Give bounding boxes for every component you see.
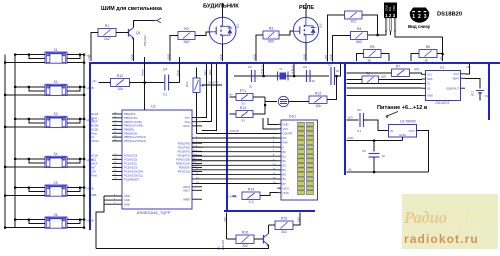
wire crystal to R12 [289, 101, 309, 103]
wire S4 pin3 to bus1 [5, 166, 45, 168]
svg-text:PD6(ICP): PD6(ICP) [179, 166, 190, 170]
junction S5 bus2 [14, 187, 16, 189]
junction S4 bus2 [14, 158, 16, 160]
wire S1 pin5 jumper [67, 55, 80, 59]
svg-text:PD7(OC2): PD7(OC2) [178, 170, 190, 174]
section border: RTC/power divider vertical [344, 62, 346, 175]
svg-text:КОТ: КОТ [446, 206, 499, 233]
svg-text:R8: R8 [366, 72, 371, 76]
svg-text:ШИМ для светильника: ШИМ для светильника [101, 6, 163, 12]
svg-text:X1: X1 [91, 135, 95, 139]
junction contrast node [264, 104, 266, 106]
wire PT1 left [230, 96, 237, 98]
svg-text:Вид снизу: Вид снизу [408, 24, 431, 29]
wire hour net up [202, 64, 207, 118]
svg-text:VCC: VCC [453, 72, 459, 76]
switch S6 [45, 213, 67, 228]
junction S1 right lower [83, 62, 85, 64]
wire S4 pin2 jumper [29, 159, 45, 163]
MCU left pins PB group [112, 112, 146, 143]
wire bundle MCU to LCD [192, 137, 278, 185]
svg-text:2k2: 2k2 [281, 230, 287, 234]
junction S1 jumper right [79, 54, 81, 56]
section border: left vertical bus line [89, 62, 91, 230]
svg-text:R13: R13 [240, 106, 247, 110]
junction XTAL1 [263, 75, 265, 77]
wire S5 pin4 right [67, 187, 84, 189]
wire MCU GND down [96, 196, 104, 249]
svg-text:Q1: Q1 [236, 24, 240, 28]
wire LCD pin2 VCC [263, 118, 278, 129]
svg-text:R4: R4 [357, 27, 362, 31]
svg-text:B7: B7 [283, 182, 287, 186]
svg-text:PC6(RESET): PC6(RESET) [124, 178, 140, 182]
svg-text:PB5(MOSI): PB5(MOSI) [124, 131, 137, 135]
svg-text:CONTR: CONTR [208, 81, 218, 85]
svg-text:BT1: BT1 [471, 90, 475, 96]
svg-text:0,1: 0,1 [163, 93, 168, 97]
wire S3 pin4 right [67, 118, 84, 120]
junction R9/R4/DQ [377, 34, 379, 36]
svg-text:470: 470 [381, 75, 387, 79]
svg-text:SQW/OUT: SQW/OUT [446, 86, 459, 90]
net labels at MCU left [91, 112, 99, 197]
svg-text:PB5(OCTA): PB5(OCTA) [124, 116, 138, 120]
MOSFET Q2 (relay) [293, 17, 322, 42]
wire XTAL1 stub [263, 64, 265, 77]
wire Q2 source down [305, 43, 307, 61]
wire R6 left down [411, 54, 419, 62]
resistor R16 [236, 231, 254, 249]
svg-text:Rese: Rese [91, 116, 98, 120]
svg-text:R1: R1 [105, 24, 110, 28]
wire C9 up [373, 141, 375, 152]
wire U3 OUT down [417, 131, 429, 173]
resistor R4 [351, 27, 368, 44]
svg-text:PC4(A2C4/SDA): PC4(A2C4/SDA) [124, 170, 143, 174]
svg-text:PB6(TAL1/TOSC1): PB6(TAL1/TOSC1) [124, 135, 146, 139]
svg-text:DQ: DQ [388, 7, 392, 11]
resistor R12 [309, 92, 327, 109]
potentiometer RV1 (contrast) [185, 78, 204, 93]
wire X2 left [347, 87, 422, 89]
switch S5 [45, 181, 67, 196]
junction S5 right lower [83, 195, 85, 197]
wire C4 right [169, 82, 180, 84]
svg-text:C3: C3 [303, 65, 307, 69]
junction R6/VDD [442, 53, 444, 55]
svg-text:PB7(TAL2/TOSC2): PB7(TAL2/TOSC2) [124, 139, 146, 143]
wire C9 down [373, 157, 375, 172]
section border: right edge vertical [488, 62, 490, 120]
svg-text:S3: S3 [54, 112, 58, 116]
svg-text:R3: R3 [269, 27, 274, 31]
junction S5 right upper [83, 187, 85, 189]
junction C9 top [373, 140, 375, 142]
wire reset vertical to MCU [144, 57, 146, 110]
junction S4 right upper [83, 158, 85, 160]
svg-text:CATOD: CATOD [228, 195, 237, 199]
resistor R3 [263, 27, 279, 44]
wire DS18B20 GND leg [368, 31, 387, 35]
wire S1 pin2 jumper [29, 55, 45, 59]
wire Q2 drain up [305, 3, 307, 17]
svg-text:РТ1: РТ1 [240, 89, 246, 93]
svg-text:2: 2 [418, 14, 421, 20]
svg-text:U2: U2 [151, 105, 156, 109]
svg-text:U3 78M05: U3 78M05 [400, 120, 416, 124]
svg-text:R7: R7 [396, 65, 401, 69]
junction C9 bottom [373, 171, 375, 173]
transistor Q4 (PN2222) [129, 28, 141, 40]
wire R7 to SQL [410, 73, 422, 75]
svg-text:AREF: AREF [183, 197, 190, 201]
svg-text:+БП: +БП [324, 55, 328, 60]
wire S1 pin4 right [67, 54, 84, 56]
switch S2 [45, 80, 67, 95]
wire R1 left to +5v [91, 33, 98, 62]
wire R2 to Q1 gate [195, 32, 211, 36]
svg-text:GND: GND [399, 133, 407, 137]
wire R15 right up [293, 213, 300, 226]
wire R13 right up [253, 97, 265, 114]
wire AVCC net up [202, 64, 217, 131]
capacitor C1 [328, 63, 340, 86]
wire S1 pin6 right [67, 62, 84, 64]
svg-text:DS1: DS1 [289, 115, 296, 119]
section border: middle vertical divider [226, 62, 228, 212]
svg-text:C4: C4 [163, 68, 167, 72]
wire node to crystal circle [265, 101, 277, 103]
svg-text:3V: 3V [485, 94, 488, 98]
svg-text:2k2: 2k2 [104, 37, 110, 41]
junction S2 jumper left [28, 86, 30, 88]
wire C1 right up [335, 64, 341, 77]
resistor R2 [178, 27, 195, 44]
svg-text:GND: GND [176, 70, 180, 76]
svg-text:GND: GND [130, 54, 134, 60]
svg-text:B0: B0 [283, 150, 287, 154]
svg-text:R16: R16 [242, 231, 249, 235]
wire R3 to Q2 gate [279, 31, 294, 35]
wire R2 left down [170, 36, 178, 62]
svg-text:Q5: Q5 [217, 246, 221, 250]
wire S1 pin1 to bus2 [15, 54, 45, 56]
MCU GND pins [104, 194, 130, 206]
wire collector to R15 [269, 224, 276, 226]
resistor R10 [111, 74, 130, 91]
svg-text:Prost: Prost [91, 174, 97, 178]
wire S2 pin3 to bus1 [5, 94, 45, 96]
svg-text:GND: GND [219, 54, 223, 60]
junction S3 right upper [83, 118, 85, 120]
svg-text:X2: X2 [427, 86, 431, 90]
wire R1 to Q4 base [116, 32, 129, 34]
svg-text:560: 560 [268, 40, 274, 44]
wire R10 left [99, 82, 111, 84]
wire S2 pin4 right [67, 86, 84, 88]
svg-text:560: 560 [184, 40, 190, 44]
svg-text:B5: B5 [283, 173, 287, 177]
wire R12 right up [327, 76, 337, 100]
wire C4 to GND stub [179, 57, 181, 83]
capacitor C4 [163, 68, 169, 97]
wire RV1 top [196, 68, 198, 79]
svg-text:RS: RS [283, 136, 287, 140]
svg-text:PC5(A2C5/SCL): PC5(A2C5/SCL) [124, 174, 143, 178]
wire S4 pin5 jumper [67, 159, 80, 163]
svg-text:R10: R10 [117, 74, 124, 78]
svg-text:Timo: Timo [184, 120, 190, 124]
RTC U1 DS1307 box [426, 71, 461, 101]
wire S5 pin1 to bus2 [15, 187, 45, 189]
svg-text:HC6B: HC6B [87, 219, 94, 223]
svg-text:Y1: Y1 [279, 67, 283, 71]
svg-text:20: 20 [336, 69, 340, 73]
svg-text:GND: GND [384, 5, 388, 11]
svg-text:R12: R12 [315, 92, 322, 96]
junction S1 bus1 [4, 62, 6, 64]
wire left bus 2 [14, 55, 16, 228]
svg-text:Q4: Q4 [136, 31, 140, 35]
svg-text:GND: GND [427, 94, 433, 98]
svg-text:PB0(XP0): PB0(XP0) [124, 112, 136, 116]
junction S2 jumper right [79, 86, 81, 88]
svg-text:GND: GND [252, 54, 256, 60]
svg-text:2k2: 2k2 [242, 244, 248, 248]
svg-text:GND: GND [124, 202, 130, 206]
wire S5 pin3 to bus1 [5, 195, 45, 197]
svg-text:B1: B1 [283, 154, 287, 158]
svg-text:R15: R15 [281, 217, 288, 221]
wire S5 pin2 jumper [29, 188, 45, 192]
svg-text:20: 20 [312, 79, 316, 83]
wire Q1 source down [222, 44, 224, 61]
junction R12/C1 [336, 75, 338, 77]
wire S6 pin4 right [67, 219, 84, 221]
svg-text:470: 470 [414, 68, 420, 72]
wire S6 pin3 to bus1 [5, 227, 45, 229]
wire S1 pin3 to bus1 [5, 62, 45, 64]
svg-text:X3: X3 [241, 102, 245, 106]
capacitor C2 [248, 65, 255, 89]
svg-text:R5: R5 [370, 45, 375, 49]
svg-text:HC5B: HC5B [87, 187, 94, 191]
junction S2 right lower [83, 94, 85, 96]
junction XTAL2 [293, 75, 295, 77]
svg-text:Prost: Prost [91, 131, 97, 135]
svg-text:PD1(TXD): PD1(TXD) [178, 145, 190, 149]
svg-text:Reset: Reset [141, 69, 145, 76]
wire S3 pin6 right [67, 126, 84, 128]
wire to R16 [227, 238, 237, 240]
svg-text:SCL: SCL [427, 72, 433, 76]
svg-text:DS18B20: DS18B20 [437, 12, 462, 18]
svg-text:БУДИЛЬНИК: БУДИЛЬНИК [203, 4, 239, 10]
svg-text:NC/A: NC/A [283, 186, 290, 190]
svg-text:10k: 10k [315, 104, 321, 108]
svg-text:1: 1 [412, 14, 415, 20]
LCD connector DS1 box [281, 120, 318, 200]
svg-text:GND: GND [124, 198, 130, 202]
wire Q5 emitter to GND row [96, 245, 269, 249]
wire battery down [479, 93, 481, 101]
svg-text:BhT: BhT [91, 165, 96, 169]
wire S6 pin6 right [67, 227, 84, 229]
svg-text:HC1B: HC1B [91, 153, 98, 157]
svg-text:CONTR: CONTR [283, 132, 293, 136]
svg-text:RV1: RV1 [185, 81, 189, 87]
junction S4 bus1 [4, 166, 6, 168]
wire left bus 1 [4, 55, 6, 228]
svg-text:HC2B: HC2B [91, 127, 98, 131]
svg-text:X1: X1 [427, 82, 431, 86]
resistor R6 [419, 45, 437, 58]
wire RV1 wiper (CONTR) [204, 84, 222, 86]
wire S6 pin1 to bus2 [15, 219, 45, 221]
wire Timo net up [202, 64, 212, 122]
LCD pin labels and cells [278, 122, 314, 195]
regulator U3 78M05 [389, 120, 417, 138]
resistor R5 [364, 45, 382, 58]
wire LCD pin3 CONTR [197, 132, 278, 134]
MCU left pins PC group [112, 153, 143, 181]
wire R9 left down [328, 15, 345, 62]
wire S5 pin5 jumper [67, 188, 80, 192]
svg-text:ПВ1: ПВ1 [224, 217, 227, 222]
junction S4 jumper left [28, 158, 30, 160]
junction reset node [144, 82, 146, 84]
svg-text:PC1(A2C1): PC1(A2C1) [124, 162, 137, 166]
wire U3 GND down [402, 137, 404, 141]
wire S4 pin4 right [67, 158, 84, 160]
svg-text:+5v: +5v [466, 65, 471, 69]
svg-text:C2: C2 [248, 65, 252, 69]
junction S3 jumper right [79, 118, 81, 120]
svg-text:R14: R14 [248, 188, 255, 192]
svg-text:AVCC: AVCC [183, 124, 190, 128]
wire R14 left stub [233, 195, 237, 197]
wire power bottom row [347, 171, 429, 173]
junction S4 right lower [83, 166, 85, 168]
wire Q5 collector up [268, 225, 270, 234]
svg-text:VCC: VCC [283, 127, 289, 131]
junction S5 jumper right [79, 187, 81, 189]
svg-text:GND: GND [283, 123, 289, 127]
wire R3 left down [256, 35, 263, 61]
wire R13 left [230, 113, 237, 115]
junction S1 right upper [83, 54, 85, 56]
wire R5 right down [381, 54, 389, 62]
svg-text:VDD: VDD [392, 5, 396, 11]
resistor R8 [362, 72, 379, 84]
capacitor C8 [357, 108, 364, 133]
wire PT1 right [253, 96, 265, 98]
svg-text:OUT: OUT [409, 129, 416, 133]
wire R5 left down [357, 54, 364, 62]
wire S5 pin6 right [67, 195, 84, 197]
switch S4 [45, 152, 67, 167]
wire S2 pin1 to bus2 [15, 86, 45, 88]
svg-text:PD5(OC1A): PD5(OC1A) [176, 162, 190, 166]
svg-text:IN: IN [390, 129, 393, 133]
svg-text:560: 560 [356, 40, 362, 44]
svg-text:radiokot.ru: radiokot.ru [404, 232, 479, 246]
svg-text:R6: R6 [426, 45, 431, 49]
wire DS18B20 VDD leg right down [395, 31, 443, 55]
wire X1 left [347, 83, 422, 85]
svg-text:+БП: +БП [348, 116, 353, 120]
wire VDD to +5 net [442, 54, 444, 61]
wire R8 to SDA [379, 78, 422, 81]
wire C8 to U3 IN [364, 120, 389, 131]
power switch [387, 112, 398, 117]
svg-text:+5v: +5v [87, 55, 91, 60]
svg-text:R2: R2 [184, 27, 189, 31]
svg-text:PB0(OC24 AN0): PB0(OC24 AN0) [124, 124, 143, 128]
transistor Q5 (PN2222) [264, 234, 269, 247]
svg-text:+5v: +5v [228, 93, 233, 97]
svg-text:Q2: Q2 [319, 23, 323, 27]
svg-text:PN2222: PN2222 [143, 35, 147, 46]
svg-text:PB4(S5): PB4(S5) [124, 128, 134, 132]
capacitor C9 electrolytic [362, 149, 385, 158]
resistor PT1 [236, 89, 253, 101]
svg-text:E: E [283, 145, 285, 149]
resistor R9 [345, 11, 363, 24]
svg-text:S2: S2 [54, 80, 58, 84]
svg-text:PD4(OC1B): PD4(OC1B) [176, 158, 190, 162]
resistor R14 [242, 188, 260, 205]
svg-text:XTAL2: XTAL2 [91, 139, 99, 143]
junction S2 right upper [83, 86, 85, 88]
svg-text:PD2(INT0): PD2(INT0) [178, 149, 191, 153]
svg-text:РЕЛЕ: РЕЛЕ [299, 5, 314, 11]
svg-text:S6: S6 [54, 213, 58, 217]
DS18B20 TO-92 package [384, 3, 397, 32]
svg-text:+5v: +5v [348, 168, 353, 172]
wire crystal row [234, 75, 329, 77]
svg-text:B4: B4 [283, 168, 287, 172]
section border: bottom horizontal (LCD section) [224, 210, 315, 212]
MCU right pins PD group [176, 141, 202, 173]
svg-text:VBAT: VBAT [452, 76, 459, 80]
svg-text:10k: 10k [117, 87, 123, 91]
svg-text:SNB: SNB [91, 193, 97, 197]
svg-text:GND: GND [124, 194, 130, 198]
junction S3 jumper left [28, 118, 30, 120]
svg-text:B6: B6 [283, 177, 287, 181]
wire RTC GND left [347, 95, 422, 97]
svg-text:(XTAL2): (XTAL2) [291, 65, 294, 74]
wire S2 pin5 jumper [67, 87, 80, 91]
svg-text:HC2B: HC2B [87, 86, 94, 90]
svg-text:GND: GND [329, 54, 333, 60]
wire S6 pin5 jumper [67, 220, 80, 224]
svg-text:C9: C9 [362, 149, 366, 153]
svg-text:B3: B3 [283, 164, 287, 168]
svg-text:GND: GND [166, 54, 170, 60]
resistor R15 [275, 217, 293, 235]
svg-text:1k: 1k [367, 59, 371, 63]
svg-text:hour: hour [185, 116, 190, 120]
svg-text:GND: GND [302, 54, 306, 60]
watermark radiokot [402, 194, 499, 249]
svg-text:3,3: 3,3 [249, 200, 254, 204]
junction S6 right lower [83, 227, 85, 229]
svg-text:DS1307Z: DS1307Z [436, 101, 450, 105]
wire S3 pin1 to bus2 [15, 118, 45, 120]
